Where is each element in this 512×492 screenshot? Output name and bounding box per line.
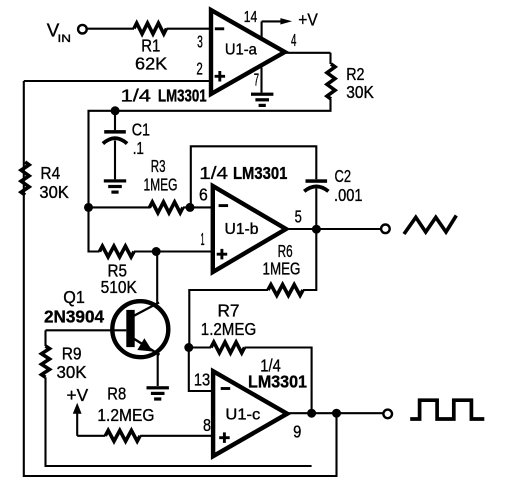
svg-text:R9: R9 [62, 344, 82, 364]
junction U1-b output node [312, 225, 321, 234]
wire pin2 input [24, 80, 211, 82]
svg-text:R7: R7 [218, 301, 240, 321]
svg-text:1.2MEG: 1.2MEG [97, 405, 154, 425]
wire rail left node down to R5 [89, 207, 100, 251]
triangle wave symbol [404, 216, 456, 235]
svg-text:1MEG: 1MEG [263, 259, 301, 279]
capacitor C1 [104, 130, 126, 134]
Q1 collector diagonal [134, 303, 160, 317]
svg-text:1/4: 1/4 [199, 163, 228, 183]
wire pin6 segment [89, 206, 151, 208]
wire R9 to bottom rail [46, 377, 312, 466]
resistor R3 [150, 202, 184, 213]
U1-c minus [221, 387, 231, 390]
junction U1-c output node 2 [332, 409, 341, 418]
pin 7 wire [260, 68, 262, 93]
pin 14 wire [261, 21, 263, 39]
op-amp U1-c [213, 371, 287, 456]
svg-text:3: 3 [197, 32, 203, 52]
wire R6 left to R7 node [189, 290, 268, 348]
wire R6 branch down [303, 229, 316, 290]
wire R7 right to U1-c output [245, 348, 312, 414]
U1-b plus [217, 249, 228, 260]
junction left node [84, 203, 93, 212]
resistor R8 [105, 430, 140, 441]
svg-text:.001: .001 [334, 185, 363, 205]
svg-text:1MEG: 1MEG [144, 174, 178, 194]
+V arrow top [262, 20, 282, 22]
wire VIN to R1 [87, 28, 134, 30]
svg-text:1.2MEG: 1.2MEG [201, 319, 256, 339]
svg-text:.1: .1 [133, 138, 144, 158]
junction R7 node [184, 343, 193, 352]
svg-text:R3: R3 [151, 156, 166, 176]
svg-text:LM3301: LM3301 [248, 372, 307, 392]
svg-text:9: 9 [293, 422, 301, 442]
svg-text:30K: 30K [346, 82, 374, 102]
wire C2 bottom stub [315, 189, 317, 230]
wire R7 left stub [189, 346, 211, 348]
wire collector [156, 252, 158, 304]
terminal square output [383, 410, 392, 419]
U1-c plus [219, 432, 230, 443]
svg-text:8: 8 [203, 415, 211, 435]
svg-text:2: 2 [196, 59, 202, 79]
svg-text:30K: 30K [39, 182, 69, 202]
resistor R5 [100, 246, 135, 257]
svg-text:R1: R1 [141, 36, 160, 56]
ground under C1 [104, 179, 126, 182]
op-amp U1-a [211, 10, 285, 94]
resistor R2 [327, 64, 335, 99]
wire C1 stub top [114, 111, 116, 130]
square wave symbol [410, 400, 484, 419]
wire R2 top stub [329, 53, 331, 64]
svg-text:30K: 30K [57, 362, 87, 382]
wire R8 to pin8 [140, 435, 213, 437]
svg-text:13: 13 [194, 369, 210, 389]
Q1 base bar [126, 310, 134, 347]
svg-text:6: 6 [199, 184, 208, 204]
wire R2 bottom to left rail [89, 99, 331, 207]
resistor R6 [268, 285, 303, 296]
wire U1-c output [287, 412, 383, 414]
wire R5 to pin1 [134, 250, 213, 252]
junction C1 node [111, 106, 120, 115]
wire U1-b feedback loop [191, 146, 316, 207]
resistor R7 [211, 342, 245, 353]
op-amp U1-b [213, 186, 286, 272]
svg-text:R8: R8 [107, 384, 126, 404]
Q1 emitter diagonal [134, 339, 160, 355]
wire U1-a output [285, 52, 331, 54]
ground under U1-a pin7 [251, 93, 273, 96]
wire base corner to R9 [44, 330, 46, 346]
junction U1-c output node 1 [307, 409, 316, 418]
svg-text:5: 5 [295, 206, 302, 226]
resistor R1 [134, 23, 167, 34]
terminal VIN [78, 25, 87, 34]
terminal triangle output [381, 225, 390, 234]
svg-text:1: 1 [201, 229, 205, 249]
wire square out to outer loop [24, 81, 337, 476]
svg-text:IN: IN [58, 33, 72, 45]
svg-text:1/4: 1/4 [121, 85, 152, 105]
U1-a minus [215, 27, 224, 30]
svg-text:4: 4 [291, 30, 297, 50]
svg-text:R4: R4 [40, 163, 60, 183]
wire C1 to ground [114, 141, 116, 180]
junction pin6 node [186, 203, 195, 212]
svg-text:+V: +V [67, 385, 89, 405]
ground under Q1 emitter [147, 386, 169, 389]
svg-text:62K: 62K [135, 54, 168, 74]
svg-text:7: 7 [254, 69, 259, 89]
svg-text:LM3301: LM3301 [158, 85, 207, 105]
wire R1 to pin3 [167, 28, 212, 30]
svg-text:C2: C2 [335, 166, 352, 186]
svg-text:14: 14 [244, 9, 258, 26]
resistor R9 [42, 346, 50, 377]
capacitor C2 [306, 179, 328, 183]
transistor Q1 circle [112, 301, 168, 357]
wire base [46, 329, 127, 331]
svg-text:+V: +V [298, 9, 318, 29]
svg-text:Q1: Q1 [63, 287, 85, 307]
svg-text:U1-c: U1-c [225, 407, 260, 424]
wire pin13 [189, 348, 213, 392]
resistor R4 [21, 162, 29, 195]
svg-text:LM3301: LM3301 [233, 163, 288, 183]
svg-text:2N3904: 2N3904 [44, 307, 104, 327]
svg-text:510K: 510K [101, 277, 137, 297]
wire R3 to pin6 [183, 206, 213, 208]
junction pin1 node [152, 247, 161, 256]
wire U1-b output [286, 228, 381, 230]
svg-text:C1: C1 [132, 120, 150, 140]
svg-text:U1-a: U1-a [225, 41, 257, 58]
U1-a plus [215, 71, 226, 82]
svg-text:U1-b: U1-b [225, 221, 259, 238]
U1-b minus [219, 204, 229, 207]
wire R8 left segment [77, 435, 105, 437]
wire emitter to ground [157, 354, 159, 386]
+V arrow bottom [76, 413, 78, 436]
